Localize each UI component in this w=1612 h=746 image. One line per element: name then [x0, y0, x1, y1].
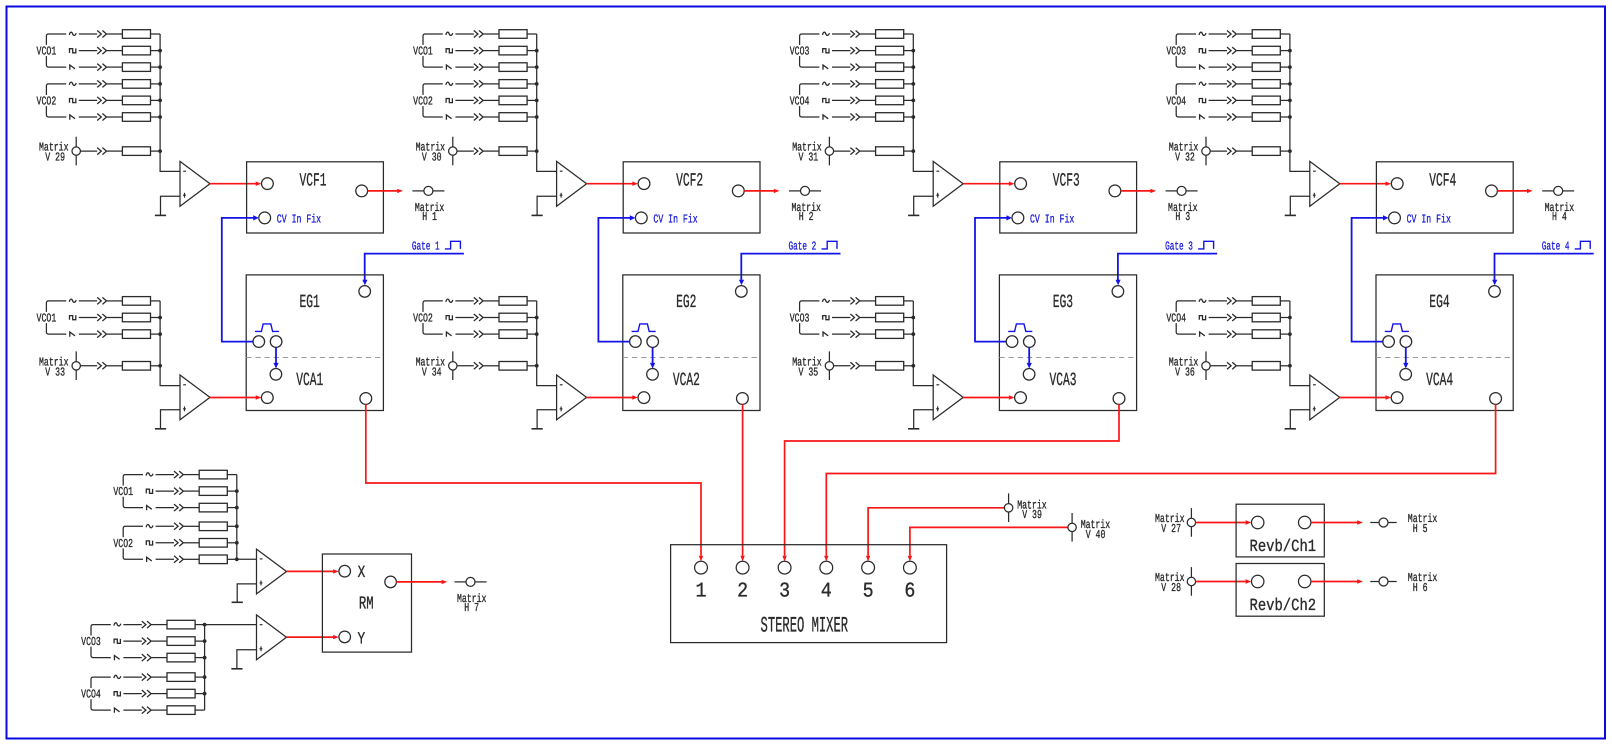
svg-text:V 34: V 34	[422, 365, 442, 379]
block VCF1	[247, 162, 384, 233]
pin VCA4 CV in	[1400, 369, 1412, 381]
node Matrix V 33 (b1-vca)	[72, 351, 80, 380]
pin VCA1 out	[360, 393, 372, 405]
node Matrix V 34 (b2-vca)	[449, 351, 457, 380]
pin EG3 gate in	[1112, 286, 1124, 298]
node Matrix V 40 (mix6)	[1068, 513, 1076, 542]
node VCO2 source bracket	[412, 301, 443, 334]
label Y	[358, 630, 366, 649]
wire VCO4-b4 input row (saw)	[1200, 113, 1292, 122]
node Matrix H 3 (b3-out)	[1166, 186, 1198, 195]
pin mixer input 2	[736, 561, 749, 574]
svg-text:STEREO MIXER: STEREO MIXER	[761, 614, 849, 639]
label EG3	[1053, 292, 1073, 313]
pin VCA1 CV in	[270, 369, 282, 381]
svg-text:5: 5	[863, 580, 874, 603]
svg-text:VCO2: VCO2	[37, 95, 57, 109]
wire EG2 env to VCA2 CV	[650, 347, 655, 368]
wire VCO3-b3 input row (saw)	[823, 63, 915, 72]
wire rmY input row (square)	[114, 689, 206, 698]
wire op-amp U1a out to VCF1 in	[210, 182, 261, 186]
op-amp U4b (VCA4 input mixer)	[1310, 375, 1340, 420]
divider EG3/VCA3	[999, 357, 1136, 359]
pin Revb/Ch1 out	[1299, 516, 1311, 528]
wire rmY input row (square)	[114, 637, 206, 646]
svg-text:CV In Fix: CV In Fix	[1407, 212, 1451, 226]
op-amp U2a (VCF2 input mixer)	[557, 161, 587, 206]
label mixer input 4	[821, 580, 832, 603]
pin VCA3 out	[1113, 393, 1125, 405]
wire summing bus b1 (VCF)	[160, 34, 180, 171]
wire Revb/Ch1 out to Matrix H 5	[1311, 520, 1363, 524]
wire VCO1-b2 input row (sine)	[446, 30, 537, 39]
label Matrix V 32	[1169, 141, 1199, 165]
svg-text:EG3: EG3	[1053, 292, 1073, 313]
label Matrix H 6	[1408, 571, 1438, 595]
wire VCO4-b4 input row (sine)	[1199, 80, 1292, 89]
pin EG2 internal out	[647, 336, 659, 348]
svg-text:H 3: H 3	[1175, 210, 1190, 224]
wire VCO2-vca2 input row (saw)	[446, 330, 538, 339]
node VCO3 source bracket	[80, 625, 111, 658]
node Matrix V 32 (b4-vcf)	[1202, 137, 1210, 166]
svg-text:V 40: V 40	[1086, 528, 1106, 542]
wire VCO2-b2 input row (square)	[446, 96, 538, 105]
node Matrix V 29 (b1-vcf)	[72, 137, 80, 166]
svg-text:EG1: EG1	[300, 292, 320, 313]
op-amp U3b (VCA3 input mixer)	[933, 375, 963, 420]
label VCF1	[300, 171, 327, 192]
svg-text:Gate 4: Gate 4	[1542, 239, 1570, 253]
svg-text:VCO4: VCO4	[81, 688, 101, 702]
label Matrix V 27	[1155, 512, 1185, 536]
svg-text:H 1: H 1	[422, 210, 437, 224]
label Gate 4	[1542, 239, 1570, 253]
block EG3/VCA3	[999, 275, 1136, 411]
svg-text:Gate 1: Gate 1	[412, 239, 440, 253]
wire Gate 1 to EG1	[362, 254, 464, 286]
block EG2/VCA2	[623, 275, 760, 411]
wire VCO1-b1 input row (square)	[70, 46, 163, 55]
svg-text:V 36: V 36	[1175, 365, 1195, 379]
block Revb/Ch2	[1236, 564, 1324, 617]
svg-text:VCO2: VCO2	[413, 95, 433, 109]
node VCO2 source bracket	[35, 84, 66, 117]
svg-text:VCF1: VCF1	[300, 171, 327, 192]
ground op-amp U3a +input	[908, 196, 933, 215]
block EG4/VCA4	[1376, 275, 1513, 411]
pin mixer input 6	[904, 561, 917, 574]
wire VCO2-b2 input row (saw)	[446, 113, 538, 122]
svg-text:V 28: V 28	[1161, 581, 1181, 595]
wire VCO1-vca1 input row (sine)	[69, 297, 160, 306]
wire VCO3-vca3 input row (saw)	[823, 330, 915, 339]
pin VCF1 signal in	[262, 178, 274, 190]
pin EG3 env out	[1006, 336, 1018, 348]
svg-text:VCO1: VCO1	[113, 485, 133, 499]
wire VCO4-vca4 input row (square)	[1199, 313, 1292, 322]
wire VCA1 out to mixer input 1	[366, 404, 703, 561]
wire op-amp U3a out to VCF3 in	[963, 182, 1014, 186]
node VCO1 source bracket	[112, 475, 143, 508]
wire rmX input row (square)	[146, 539, 238, 548]
op-amp U1a (VCF1 input mixer)	[180, 161, 210, 206]
label Matrix V 28	[1155, 571, 1185, 595]
svg-text:VCA3: VCA3	[1050, 370, 1077, 391]
svg-text:V 33: V 33	[45, 365, 65, 379]
divider EG2/VCA2	[623, 357, 760, 359]
wire VCO3-vca3 input row (square)	[823, 313, 915, 322]
wire Matrix V 31 row	[834, 147, 916, 156]
label mixer input 6	[904, 580, 915, 603]
label VCF2	[676, 171, 703, 192]
pin VCA2 CV in	[647, 369, 659, 381]
pin EG2 env out	[630, 336, 642, 348]
label EG2	[676, 292, 696, 313]
label Matrix H 2	[791, 201, 821, 224]
node Matrix V 30 (b2-vcf)	[449, 137, 457, 166]
label VCA3	[1050, 370, 1077, 391]
node Matrix H 6 (revb2-out)	[1370, 577, 1396, 586]
wire rmY input row (saw)	[114, 653, 206, 662]
wire EG3 env to VCA3 CV	[1027, 347, 1032, 368]
wire VCO3-b4 input row (sine)	[1199, 30, 1290, 39]
svg-text:EG4: EG4	[1429, 292, 1449, 313]
svg-text:VCF3: VCF3	[1053, 171, 1080, 192]
svg-text:VCO1: VCO1	[413, 45, 433, 59]
node VCO4 source bracket	[80, 677, 111, 710]
ground op-amp U2b +input	[532, 410, 557, 429]
svg-text:V 39: V 39	[1022, 508, 1042, 522]
pin RM Y in	[339, 631, 351, 643]
svg-text:X: X	[358, 564, 366, 583]
pin VCF3 CV In Fix	[1012, 212, 1024, 224]
svg-text:VCA1: VCA1	[296, 370, 323, 391]
ground op-amp U3b +input	[908, 410, 933, 429]
wire VCO1-b1 input row (sine)	[69, 30, 160, 39]
op-amp U10 (RM Y mixer)	[257, 615, 287, 660]
node VCO4 source bracket	[1165, 84, 1196, 117]
wire VCO2-b1 input row (sine)	[69, 80, 162, 89]
wire rmY input row (sine)	[114, 673, 207, 682]
wire VCO2-vca2 input row (sine)	[446, 297, 537, 306]
pin Revb/Ch2 out	[1299, 575, 1311, 587]
node VCO2 source bracket	[412, 84, 443, 117]
pin VCF4 CV In Fix	[1389, 212, 1401, 224]
label Matrix V 40	[1081, 518, 1111, 542]
label RM	[359, 595, 374, 615]
block VCF2	[623, 162, 760, 233]
svg-text:H 4: H 4	[1552, 210, 1567, 224]
svg-text:VCO1: VCO1	[37, 312, 57, 326]
pin mixer input 4	[820, 561, 833, 574]
wire op-amp U2b out to VCA2 in	[586, 395, 638, 399]
wire VCO2-b1 input row (square)	[70, 96, 163, 105]
label STEREO MIXER	[761, 614, 849, 639]
wire VCO1-vca1 input row (square)	[70, 313, 163, 322]
pin EG4 gate in	[1489, 286, 1501, 298]
node Matrix H 1 (b1-out)	[412, 186, 444, 195]
label CV In Fix (VCF4)	[1407, 212, 1451, 226]
node Matrix H 4 (b4-out)	[1542, 186, 1574, 195]
pin VCA3 CV in	[1023, 369, 1035, 381]
pin VCA3 signal in	[1015, 392, 1027, 404]
wire rmX input row (sine)	[146, 470, 237, 479]
pin VCA4 out	[1490, 393, 1502, 405]
wire summing bus RM-Y	[204, 625, 206, 711]
op-amp U3a (VCF3 input mixer)	[933, 161, 963, 206]
wire Gate 4 to EG4	[1492, 254, 1594, 286]
label Matrix V 35	[792, 355, 822, 379]
label Matrix V 39	[1017, 498, 1046, 522]
pin VCF2 CV In Fix	[635, 212, 647, 224]
label Matrix V 31	[792, 141, 822, 165]
wire VCO3-b3 input row (square)	[823, 46, 915, 55]
envelope glyph EG2	[632, 324, 656, 332]
wire rmX input row (saw)	[147, 503, 239, 512]
wire Gate 2 to EG2	[739, 254, 841, 286]
svg-text:4: 4	[821, 580, 832, 603]
divider EG4/VCA4	[1376, 357, 1513, 359]
svg-text:Revb/Ch2: Revb/Ch2	[1250, 597, 1317, 616]
svg-text:1: 1	[696, 580, 707, 603]
label Matrix H 1	[415, 201, 445, 224]
wire op-amp U2a out to VCF2 in	[587, 182, 638, 186]
svg-text:2: 2	[737, 580, 748, 603]
wire EG3 out to VCF3 CV In Fix	[975, 215, 1012, 341]
node Matrix V 28 (revb2-in)	[1187, 567, 1195, 596]
pin VCA2 signal in	[638, 392, 650, 404]
svg-text:VCF2: VCF2	[676, 171, 703, 192]
label Matrix H 5	[1408, 512, 1438, 536]
svg-text:VCO4: VCO4	[1166, 312, 1186, 326]
pin VCF2 out	[732, 185, 744, 197]
label Matrix V 34	[416, 355, 446, 379]
svg-text:Revb/Ch1: Revb/Ch1	[1250, 538, 1317, 557]
label VCA1	[296, 370, 323, 391]
svg-text:H 6: H 6	[1413, 581, 1428, 595]
wire op-amp U4a out to VCF4 in	[1340, 182, 1391, 186]
ground op-amp U1b +input	[155, 410, 180, 429]
label Matrix H 3	[1168, 201, 1198, 224]
svg-text:Y: Y	[358, 630, 366, 649]
wire Matrix V 27 to Revb/Ch1	[1196, 520, 1252, 524]
label mixer input 1	[696, 580, 707, 603]
ground op-amp U10 +input	[231, 650, 256, 669]
op-amp U1b (VCA1 input mixer)	[180, 375, 210, 420]
label VCA4	[1426, 370, 1453, 391]
wire op-amp U1b out to VCA1 in	[210, 395, 262, 399]
pin VCF1 CV In Fix	[259, 212, 271, 224]
wire VCF4 out to Matrix H 4	[1497, 189, 1532, 193]
label Matrix H 7	[457, 592, 487, 615]
svg-text:H 5: H 5	[1413, 522, 1428, 536]
wire op-amp U4b out to VCA4 in	[1340, 395, 1392, 399]
wire EG1 env to VCA1 CV	[273, 347, 278, 368]
wire VCA4 out to mixer input 4	[824, 404, 1496, 561]
wire bus to op-amp X	[237, 558, 257, 560]
label Matrix V 29	[39, 141, 69, 165]
wire VCO4-b4 input row (square)	[1199, 96, 1292, 105]
svg-text:VCO3: VCO3	[1166, 45, 1186, 59]
node Matrix H 2 (b2-out)	[789, 186, 821, 195]
svg-text:VCO3: VCO3	[81, 635, 101, 649]
pin EG4 internal out	[1400, 336, 1412, 348]
svg-text:V 27: V 27	[1161, 522, 1181, 536]
wire summing bus b1 (VCA)	[160, 301, 180, 386]
svg-text:VCA4: VCA4	[1426, 370, 1453, 391]
svg-text:V 29: V 29	[45, 151, 65, 165]
svg-text:V 30: V 30	[422, 151, 442, 165]
wire VCO2-b2 input row (sine)	[446, 80, 539, 89]
svg-text:VCO2: VCO2	[113, 537, 133, 551]
block VCF4	[1376, 162, 1513, 233]
svg-text:VCO3: VCO3	[790, 45, 810, 59]
wire bus to op-amp Y	[203, 623, 257, 627]
label Gate 3	[1165, 239, 1193, 253]
wire VCO2-b1 input row (saw)	[70, 113, 162, 122]
node VCO4 source bracket	[1165, 301, 1196, 334]
pin EG2 gate in	[736, 286, 748, 298]
svg-text:V 31: V 31	[799, 151, 819, 165]
wire rmX input row (sine)	[146, 522, 239, 531]
pin VCA2 out	[737, 393, 749, 405]
op-amp U9 (RM X mixer)	[257, 549, 287, 594]
svg-text:CV In Fix: CV In Fix	[1030, 212, 1074, 226]
label VCF4	[1429, 171, 1456, 192]
label Revb/Ch1	[1250, 538, 1317, 557]
block Revb/Ch1	[1236, 504, 1324, 557]
block VCF3	[1000, 162, 1137, 233]
svg-text:VCO4: VCO4	[790, 95, 810, 109]
node Matrix V 31 (b3-vcf)	[825, 137, 833, 166]
wire Matrix V 36 row	[1210, 362, 1292, 371]
pin mixer input 1	[695, 561, 708, 574]
wire VCO3-b3 input row (sine)	[823, 30, 914, 39]
svg-text:Gate 3: Gate 3	[1165, 239, 1193, 253]
pin VCF3 signal in	[1015, 178, 1027, 190]
node VCO1 source bracket	[35, 34, 66, 67]
wire Matrix V 33 row	[80, 362, 162, 371]
pin VCA1 signal in	[261, 392, 273, 404]
wire VCO1-b1 input row (saw)	[70, 63, 162, 72]
node Matrix H 7 (rm-out)	[455, 577, 487, 586]
block STEREO MIXER	[671, 545, 947, 643]
wire Matrix V 29 row	[80, 147, 162, 156]
wire VCO4-vca4 input row (sine)	[1199, 297, 1290, 306]
svg-text:CV In Fix: CV In Fix	[653, 212, 697, 226]
svg-text:VCF4: VCF4	[1429, 171, 1456, 192]
wire VCO1-b2 input row (square)	[446, 46, 538, 55]
wire rmX input row (saw)	[147, 555, 239, 564]
wire summing bus b3 (VCA)	[913, 301, 933, 386]
wire Matrix V 28 to Revb/Ch2	[1196, 579, 1252, 583]
wire VCO4-b3 input row (sine)	[823, 80, 916, 89]
svg-text:3: 3	[779, 580, 790, 603]
svg-text:CV In Fix: CV In Fix	[277, 212, 321, 226]
node VCO3 source bracket	[789, 34, 820, 67]
pin EG1 env out	[253, 336, 265, 348]
wire VCO3-vca3 input row (sine)	[823, 297, 914, 306]
node Matrix V 35 (b3-vca)	[825, 351, 833, 380]
wire VCO4-b3 input row (square)	[823, 96, 915, 105]
label mixer input 5	[863, 580, 874, 603]
pin mixer input 5	[862, 561, 875, 574]
node Matrix V 39 (mix5)	[1004, 493, 1012, 522]
pin VCF4 signal in	[1391, 178, 1403, 190]
pin VCF3 out	[1109, 185, 1121, 197]
wire Matrix V 39 to mixer input 5	[866, 508, 1005, 562]
pin EG4 env out	[1383, 336, 1395, 348]
node Matrix V 27 (revb1-in)	[1187, 508, 1195, 537]
label CV In Fix (VCF2)	[653, 212, 697, 226]
wire summing bus b2 (VCA)	[537, 301, 557, 386]
wire VCO1-vca1 input row (saw)	[70, 330, 162, 339]
label Matrix V 30	[416, 141, 446, 165]
gate pulse glyph 1	[445, 241, 461, 249]
pin VCF2 signal in	[638, 178, 650, 190]
label Matrix H 4	[1545, 201, 1575, 224]
wire VCA2 out to mixer input 2	[740, 404, 744, 561]
label Gate 1	[412, 239, 440, 253]
svg-text:VCO1: VCO1	[37, 45, 57, 59]
label Matrix V 36	[1169, 355, 1199, 379]
envelope glyph EG3	[1008, 324, 1032, 332]
node VCO3 source bracket	[1165, 34, 1196, 67]
block RM	[322, 554, 411, 652]
label mixer input 3	[779, 580, 790, 603]
wire rmY input row (sine)	[114, 620, 205, 629]
pin mixer input 3	[778, 561, 791, 574]
label EG4	[1429, 292, 1449, 313]
pin EG1 internal out	[270, 336, 282, 348]
pin VCF1 out	[356, 185, 368, 197]
wire summing bus b3 (VCF)	[913, 34, 933, 171]
pin VCA4 signal in	[1391, 392, 1403, 404]
wire rmY input row (saw)	[114, 706, 204, 715]
node VCO1 source bracket	[412, 34, 443, 67]
wire Matrix V 34 row	[457, 362, 539, 371]
wire EG4 out to VCF4 CV In Fix	[1352, 215, 1389, 341]
wire op-amp U10 out to RM Y	[287, 635, 339, 639]
node VCO2 source bracket	[112, 526, 143, 559]
wire VCO2-vca2 input row (square)	[446, 313, 538, 322]
wire VCO1-b2 input row (saw)	[446, 63, 538, 72]
label mixer input 2	[737, 580, 748, 603]
envelope glyph EG4	[1385, 324, 1409, 332]
node VCO3 source bracket	[789, 301, 820, 334]
gate pulse glyph 2	[822, 241, 838, 249]
wire summing bus RM-X	[236, 475, 238, 560]
wire rmX input row (square)	[146, 487, 238, 496]
envelope glyph EG1	[255, 324, 279, 332]
wire EG4 env to VCA4 CV	[1403, 347, 1408, 368]
svg-text:RM: RM	[359, 595, 374, 615]
wire summing bus b4 (VCF)	[1290, 34, 1310, 171]
pin RM out	[385, 576, 397, 588]
wire op-amp U9 out to RM X	[287, 569, 339, 573]
svg-text:H 2: H 2	[799, 210, 814, 224]
wire VCF1 out to Matrix H 1	[368, 189, 403, 193]
ground op-amp U2a +input	[532, 196, 557, 215]
pin EG1 gate in	[359, 286, 371, 298]
label X	[358, 564, 366, 583]
wire Matrix V 35 row	[834, 362, 916, 371]
svg-text:VCO3: VCO3	[790, 312, 810, 326]
svg-text:VCO4: VCO4	[1166, 95, 1186, 109]
node Matrix V 36 (b4-vca)	[1202, 351, 1210, 380]
pin Revb/Ch2 in	[1252, 575, 1264, 587]
